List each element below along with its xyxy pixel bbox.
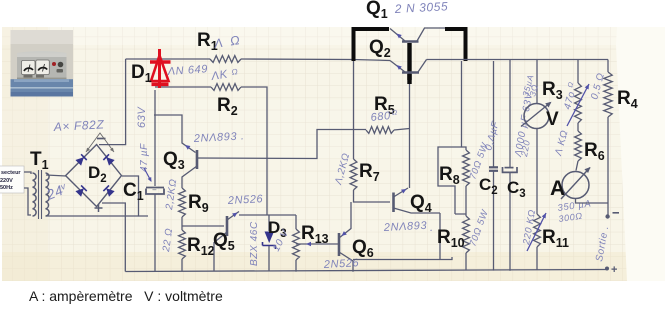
resistor R9	[179, 188, 186, 217]
annotation pointer lines to bridge diodes	[86, 133, 114, 152]
diode D3 (zener BZX46C)	[263, 215, 276, 271]
bridge rectifier D2	[66, 145, 122, 207]
svg-text:+: +	[611, 264, 617, 276]
heatsink bracket right (Q1 case)	[445, 29, 466, 61]
wire R8 to R10	[455, 186, 466, 216]
resistor R6	[575, 131, 582, 161]
wire Q5 emitter rail to D3/R13	[239, 214, 296, 216]
capacitor C2 (0,1uF)	[493, 61, 495, 167]
wire R1 to Q1 base rail	[241, 59, 390, 61]
svg-text:−: −	[152, 185, 157, 194]
wire Q3 emitter down to R9	[182, 166, 197, 188]
wire D1 cathode column down to C1	[154, 90, 156, 186]
wire left bracket column down to R7	[353, 61, 355, 159]
svg-text:Ω: Ω	[231, 67, 239, 77]
resistor R12	[179, 230, 186, 259]
svg-text:47 µF: 47 µF	[139, 143, 150, 172]
transistor Q5	[226, 216, 229, 236]
wire rail to voltmeter	[536, 60, 538, 104]
wire ammeter to minus terminal	[576, 199, 609, 204]
annotation arrow 47uF to C1	[144, 168, 151, 181]
resistor R2	[211, 84, 241, 91]
wire T1 secondary top to bridge	[46, 175, 66, 176]
svg-text:A: A	[550, 177, 565, 200]
wire R3 to R6	[577, 123, 579, 131]
node plus output terminal	[605, 267, 609, 271]
transformer T1	[33, 170, 50, 219]
svg-text:680: 680	[370, 110, 392, 124]
mains source "secteur 220V 50Hz"	[0, 166, 24, 193]
wire R10 to bottom rail	[465, 253, 467, 270]
wire D1 node to Q3 base	[154, 115, 196, 153]
svg-text:Ω: Ω	[391, 109, 398, 117]
wire R4 down to minus terminal	[607, 119, 609, 215]
svg-text:A× F82Z: A× F82Z	[52, 117, 104, 134]
node minus output terminal	[605, 214, 609, 218]
resistor R11 (potentiometer 220k)	[534, 214, 541, 247]
wire Q4 emitter column	[439, 213, 441, 259]
wire R9-R12 junction	[182, 217, 224, 230]
svg-text:2NΛ893: 2NΛ893	[383, 220, 428, 234]
wire R7 to Q4 base	[354, 190, 391, 202]
transistor Q2	[390, 60, 427, 189]
wire T1 secondary bottom to bridge right corner	[46, 176, 139, 216]
wire bridge minus up to top rail	[99, 59, 126, 145]
capacitor C3 (electrolytic 1000uF 63V)	[509, 60, 511, 167]
resistor R5	[366, 127, 394, 134]
node minus (bridge output -)	[97, 138, 106, 140]
resistor R10	[463, 216, 470, 253]
capacitor C1 (electrolytic 47uF)	[146, 185, 164, 194]
wire Q6/Q4 emitter bottom link	[353, 257, 452, 260]
resistor R7	[350, 159, 357, 190]
svg-text:50Hz: 50Hz	[0, 185, 13, 191]
wire R13 to Q6 base	[296, 243, 338, 245]
voltmeter V	[524, 104, 549, 129]
wire voltmeter down through R11	[536, 129, 538, 215]
ammeter A	[562, 172, 589, 199]
svg-text:A : ampèremètre V : voltmètr: A : ampèremètre V : voltmètre	[29, 288, 223, 304]
wire R11 to bottom rail	[536, 247, 538, 270]
wire R2 left link	[155, 86, 211, 88]
resistor R1	[210, 56, 241, 63]
wire top rail right (Q2 collector rail)	[427, 59, 609, 61]
wire R12 to bottom rail	[181, 259, 183, 271]
resistor R8	[463, 150, 470, 186]
wire rail to R3	[577, 60, 579, 84]
wire rail down to R8 top	[438, 61, 462, 214]
heatsink bracket left (Q1 case)	[354, 29, 390, 61]
svg-text:63V: 63V	[136, 106, 148, 128]
svg-text:.: .	[430, 222, 434, 234]
resistor R3 (potentiometer 470)	[575, 83, 582, 123]
svg-text:V: V	[546, 109, 559, 130]
photo inset: bench power supply	[11, 30, 74, 97]
svg-text:BZX 46C: BZX 46C	[249, 221, 260, 266]
svg-text:2N526: 2N526	[227, 193, 264, 207]
wire R6 to ammeter	[576, 161, 578, 171]
resistor R4	[607, 60, 609, 73]
wire Q3 collector to R5 node	[197, 130, 366, 159]
transistor Q4	[392, 193, 395, 213]
wire bottom rail	[125, 270, 607, 272]
transistor Q3	[196, 150, 199, 169]
wire R2 right down to reference chain	[241, 87, 267, 215]
wire C1 to bottom rail	[139, 194, 156, 271]
wire top rail left (minus rail through D1 to R1)	[126, 58, 210, 60]
wire bridge plus down to bottom rail	[102, 203, 125, 272]
resistor R13	[295, 215, 297, 229]
svg-text:secteur: secteur	[1, 170, 21, 176]
transistor Q6	[338, 233, 341, 256]
wire mains to T1 primary	[24, 172, 31, 174]
diode D1 (red, 1N649)	[150, 49, 171, 88]
node plus (bridge output +)	[95, 207, 103, 209]
svg-text:220V: 220V	[0, 178, 13, 184]
transistor Q1 (2N3055)	[390, 28, 445, 80]
